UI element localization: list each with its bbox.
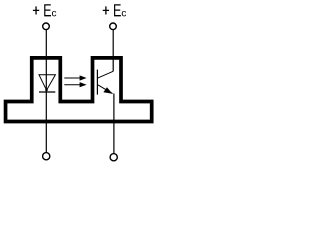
- phototransistor Q1: base bar: [96, 70, 98, 95]
- phototransistor Q1: emitter line: [97, 85, 112, 94]
- phototransistor Q1: emitter arrowhead: [103, 87, 112, 94]
- wire: left vertical (anode lead through LED to bottom terminal): [45, 30, 47, 153]
- optocoupler package outline U1 (castle shape): [6, 58, 152, 122]
- wire: right bottom (emitter lead to bottom terminal): [113, 94, 115, 154]
- terminal circle, bottom-left cathode: [43, 153, 50, 160]
- terminal circle, top-right collector: [110, 23, 117, 30]
- terminal circle, top-left anode: [43, 23, 50, 30]
- light arrow 1: [64, 75, 86, 80]
- label +Ec (right supply): [103, 4, 126, 16]
- LED D1: triangle: [39, 75, 55, 90]
- light arrow 2: [64, 82, 86, 87]
- terminal circle, bottom-right emitter: [110, 154, 117, 161]
- phototransistor Q1: collector line: [97, 71, 113, 78]
- LED apex junction blob: [45, 89, 48, 92]
- LED D1: cathode bar: [39, 91, 55, 93]
- wire: right top (collector lead): [112, 30, 114, 71]
- label +Ec (left supply): [33, 4, 56, 16]
